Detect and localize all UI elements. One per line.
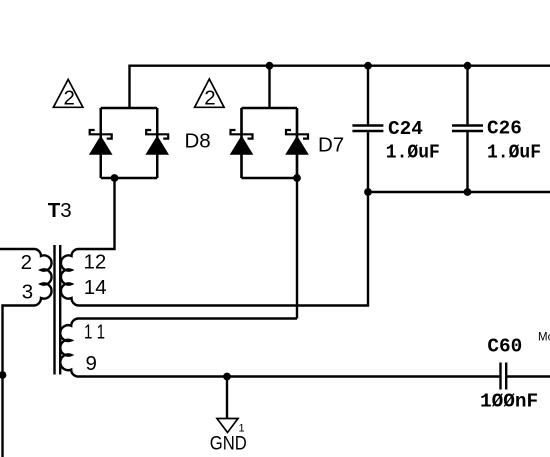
svg-text:2: 2	[21, 251, 32, 274]
svg-text:GND: GND	[210, 434, 247, 455]
svg-text:C26: C26	[487, 118, 522, 140]
svg-text:1: 1	[239, 422, 245, 434]
svg-text:D7: D7	[318, 133, 344, 156]
svg-text:1.ØuF: 1.ØuF	[487, 142, 541, 164]
svg-text:C24: C24	[388, 118, 423, 140]
svg-text:3: 3	[22, 280, 33, 303]
svg-text:2: 2	[204, 87, 215, 110]
svg-text:T3: T3	[48, 199, 72, 222]
svg-text:1ØØnF: 1ØØnF	[480, 391, 538, 413]
svg-text:9: 9	[86, 352, 97, 375]
svg-text:1.ØuF: 1.ØuF	[386, 142, 440, 164]
svg-text:1 1: 1 1	[84, 321, 105, 344]
svg-text:C60: C60	[487, 336, 522, 358]
svg-text:12: 12	[84, 251, 107, 274]
svg-text:Mo: Mo	[538, 331, 550, 343]
svg-text:2: 2	[64, 87, 75, 110]
svg-text:14: 14	[84, 276, 107, 299]
svg-text:D8: D8	[185, 130, 211, 153]
